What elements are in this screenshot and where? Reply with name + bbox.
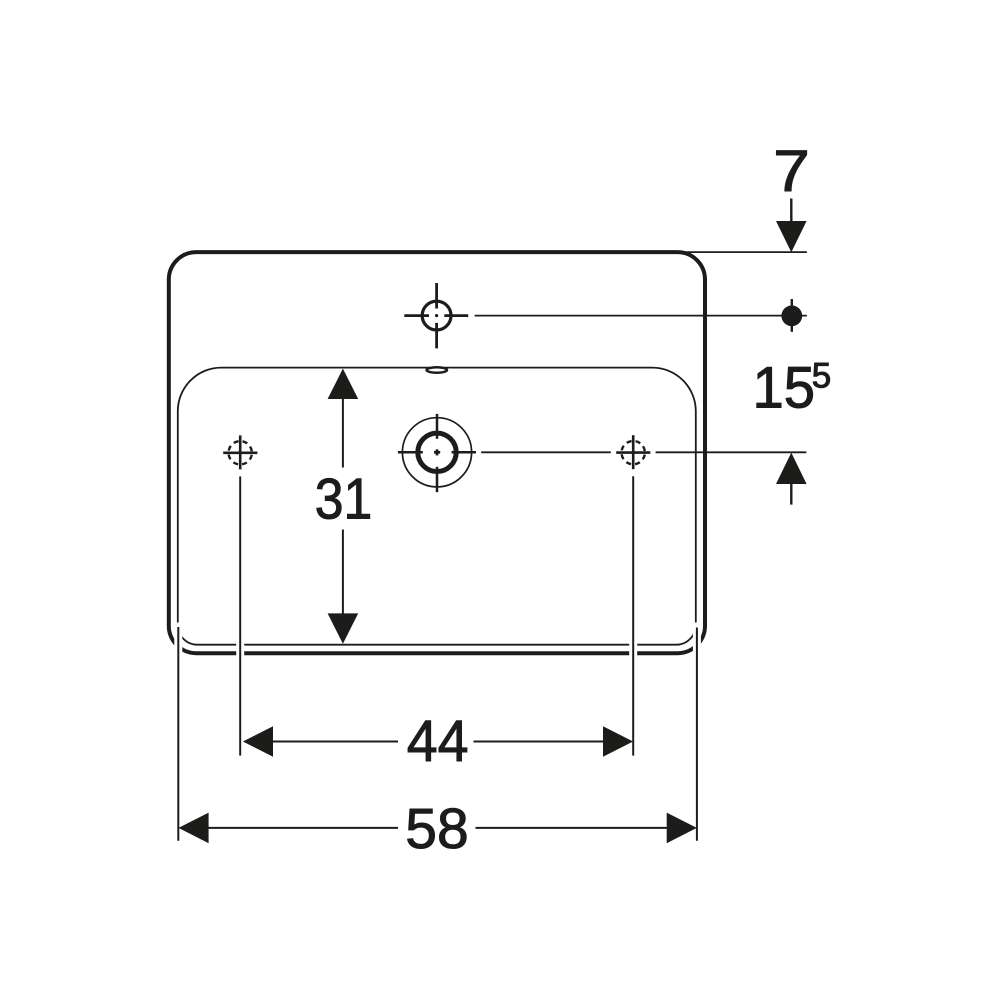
svg-text:5: 5 <box>812 356 831 395</box>
svg-text:58: 58 <box>405 797 468 861</box>
svg-text:31: 31 <box>315 466 373 531</box>
svg-text:44: 44 <box>407 709 469 775</box>
svg-text:7: 7 <box>773 139 810 204</box>
svg-text:15: 15 <box>753 356 816 421</box>
